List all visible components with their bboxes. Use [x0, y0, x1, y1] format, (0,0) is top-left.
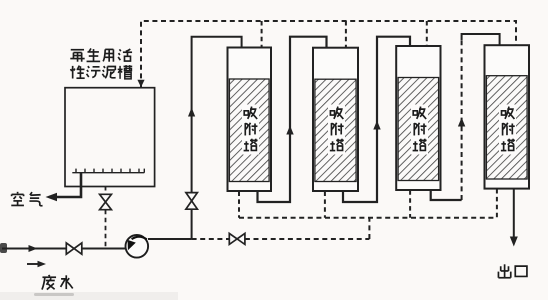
label: 吸附塔 tower T4 [501, 107, 515, 151]
air pipe from sparger out to left [49, 173, 81, 197]
label: 出口 (outlet) [498, 264, 526, 277]
dashed line: tank drain through valve V1 [105, 187, 107, 195]
wire: T1 bottom dashed drain drop [238, 192, 240, 218]
outlet line and down arrow [513, 189, 515, 238]
dashed drop to tower T1 top [261, 21, 263, 48]
up arrow on feed riser [188, 108, 195, 117]
sparger inside tank [72, 169, 144, 173]
scan artifact bottom band [0, 292, 178, 300]
top dashed manifold (regeneration gas header) [141, 21, 516, 87]
up arrow on riser T2-T3 [373, 121, 380, 130]
tower T4 [485, 45, 530, 188]
arrow on inlet line (right) [29, 245, 38, 252]
valve V1 (vertical, under tank) [100, 194, 112, 209]
valve V3 (vertical, on feed riser) [186, 193, 198, 210]
label: 空气 (air) [11, 192, 42, 206]
label: 再生用活 / 性污泥槽 (regeneration activated sludge tank) [70, 48, 132, 78]
valve V2 (horizontal, on inlet line) [66, 243, 82, 254]
tower T1 [228, 48, 272, 192]
dashed drop to tower T3 top [426, 21, 428, 46]
up arrow on dashed riser T3-T4 [458, 118, 465, 127]
wire: T3 bottom dashed drain drop [409, 190, 411, 217]
arrowhead into tank from manifold (points down) [137, 80, 144, 87]
label: 废水 (waste water) [42, 275, 73, 290]
label background T3 [411, 105, 428, 155]
wire: T2 bottom to T3 top (solid riser) [343, 37, 410, 202]
label: 吸附塔 tower T2 [330, 107, 344, 151]
up arrow on riser T1-T2 [286, 126, 293, 135]
wire: dashed riser T3 to T4 [461, 40, 463, 200]
valve V4 (horizontal, on dashed return line) [229, 233, 245, 244]
wire: T3 bottom stub to riser (solid) [431, 190, 462, 200]
wire: bottom drain manifold (dashed) [239, 217, 497, 219]
label background T4 [499, 105, 516, 155]
scan artifact left edge blob [0, 243, 7, 253]
small arrow above 废水 label [27, 261, 46, 267]
label background T1 [242, 105, 259, 155]
wire: T1 bottom to T2 top (solid riser) [258, 37, 327, 202]
pump P1 body [126, 235, 149, 258]
wire: solid corner into T4 top [462, 34, 500, 45]
wire: dashed return line from junction to drain manifold [192, 238, 230, 240]
wire: feed riser from pump to tower T1 (solid) [192, 37, 242, 239]
wire: pump discharge line [148, 238, 192, 240]
label background T2 [328, 105, 345, 155]
label: 吸附塔 tower T1 [244, 107, 258, 151]
tower T3 [396, 46, 440, 190]
wire: main inlet line (waste water) [2, 248, 126, 250]
label: 吸附塔 tower T3 [413, 107, 427, 151]
wire: T2 bottom dashed drain drop [324, 192, 326, 218]
dashed drop to tower T2 top [345, 21, 347, 48]
wire: T4 bottom dashed drain drop [496, 189, 498, 218]
tower T2 [313, 48, 358, 191]
arrowhead air (points left) [46, 193, 58, 201]
tank shell [65, 88, 155, 187]
